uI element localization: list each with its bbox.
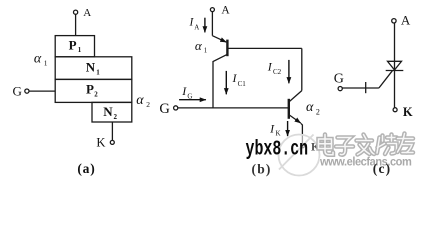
svg-text:2: 2 [94,90,98,98]
wire G to P2 [29,90,55,92]
N1 box [55,57,132,80]
gate tick [365,82,367,93]
svg-text:I: I [269,121,275,135]
terminal A (b) [210,8,214,12]
thyristor triangle [388,61,402,70]
transistor Q1 collector [213,54,227,108]
terminal K (c) [393,108,397,112]
svg-text:1: 1 [78,46,82,54]
transistor Q1 base bar [226,40,228,57]
wire diag to Q2 collector [289,91,302,102]
svg-text:ybx8.cn: ybx8.cn [246,138,309,161]
terminal G (c) [338,87,342,91]
wire right vertical [301,48,303,90]
svg-text:α: α [306,100,314,115]
svg-text:N: N [103,104,113,119]
cathode bar [386,70,404,72]
watermark hanzi 1 (dian) [319,135,334,155]
svg-text:1: 1 [44,58,48,67]
wire G to Q2 base [178,107,289,109]
svg-text:K: K [96,136,105,150]
svg-text:A: A [221,4,230,16]
current IG arrow [179,99,206,101]
terminal A (c) [392,19,396,23]
svg-text:(c): (c) [373,161,392,176]
svg-text:N: N [86,60,96,75]
P1 box [55,36,94,57]
svg-text:A: A [401,13,411,28]
svg-text:2: 2 [114,113,118,121]
watermark logo swoosh [279,135,314,170]
svg-text:I: I [181,84,187,98]
svg-text:I: I [232,71,238,85]
terminal K (b) [301,144,305,148]
terminal G (b) [174,106,178,110]
current IC2 arrow [288,60,290,83]
terminal A (a) [74,10,78,14]
transistor Q1 emitter [212,36,226,43]
current IA arrow [204,18,206,33]
svg-text:1: 1 [96,69,100,77]
terminal G (a) [25,89,29,93]
watermark hanzi 4 (shao) [377,135,397,155]
svg-text:α: α [195,38,203,53]
transistor Q2 emitter [289,115,301,124]
svg-text:2: 2 [316,107,320,116]
svg-text:P: P [69,38,77,53]
wire Q2 emitter to K [301,123,302,143]
svg-text:C1: C1 [238,80,247,88]
svg-text:A: A [194,23,199,31]
N2 box [92,102,132,122]
svg-text:G: G [159,101,170,117]
svg-text:(b): (b) [252,162,272,177]
svg-text:α: α [34,51,42,66]
svg-text:α: α [136,93,144,108]
P2 box [55,79,132,102]
svg-text:P: P [86,81,94,96]
wire A down [211,12,213,36]
wire N2 to K [111,122,113,140]
wire Q1 base to right [227,47,301,49]
gate wire horizontal [342,87,379,89]
current IC1 arrow [225,71,227,94]
svg-text:(a): (a) [77,161,95,176]
svg-text:G: G [13,84,22,99]
svg-text:G: G [334,72,344,87]
svg-text:A: A [83,7,91,19]
current IK arrow [287,121,289,136]
watermark hanzi 5 (you) [398,134,414,153]
svg-text:G: G [187,92,192,100]
svg-text:C2: C2 [273,68,282,76]
svg-text:K: K [403,105,413,119]
wire A to K vertical [394,23,396,108]
terminal K (a) [110,140,114,144]
svg-text:www.elecfans.com: www.elecfans.com [319,155,411,169]
watermark hanzi 2 (zi) [336,138,353,155]
svg-text:K: K [276,130,281,138]
gate diagonal [379,71,392,88]
svg-text:I: I [267,60,273,74]
wire A to P1 [75,14,77,35]
watermark logo circle [279,135,320,176]
transistor Q2 base bar [288,99,290,119]
svg-text:1: 1 [204,47,208,55]
svg-text:2: 2 [146,100,150,109]
watermark hanzi 3 (fa) [357,135,375,155]
